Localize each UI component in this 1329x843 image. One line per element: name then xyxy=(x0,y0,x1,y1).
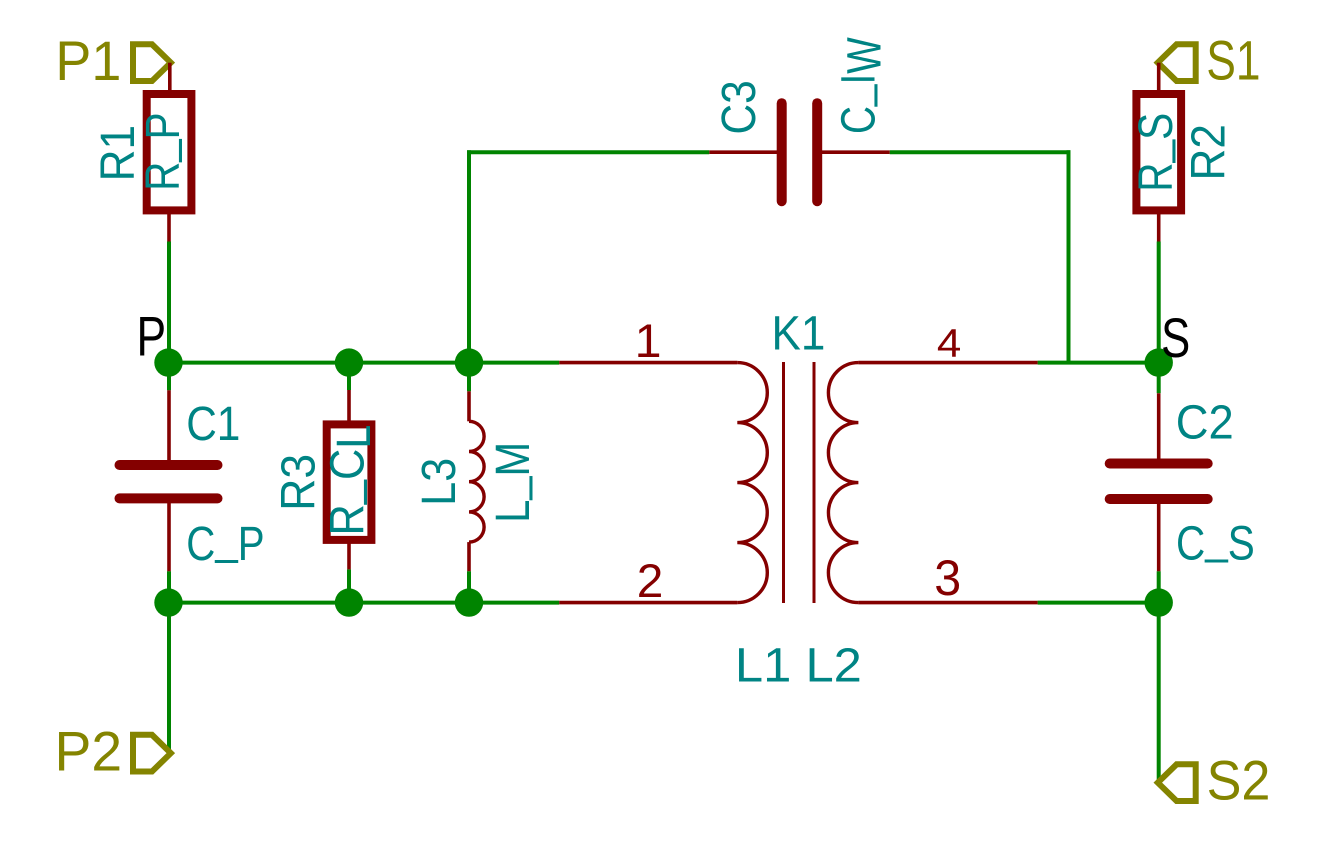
svg-text:L1 L2: L1 L2 xyxy=(735,639,862,692)
svg-text:P2: P2 xyxy=(55,720,123,782)
capacitor C3 reference text xyxy=(713,80,766,134)
transformer K1 pin 2 wire xyxy=(559,601,737,605)
junction node A at L3/C3 branch xyxy=(455,348,483,376)
junction bottom-right node xyxy=(1145,588,1173,616)
resistor R1 top pin from port P1 xyxy=(168,63,172,94)
port P1 global label shape xyxy=(133,44,171,81)
wire: drop from bottom-left node to port P2 xyxy=(167,603,171,752)
transformer K1 core line right xyxy=(813,362,816,603)
capacitor C1 top plate xyxy=(120,460,218,470)
junction node P xyxy=(154,348,182,376)
svg-text:C3: C3 xyxy=(713,80,766,134)
port S2 name text xyxy=(1207,750,1271,812)
capacitor C1 bottom plate xyxy=(120,493,218,503)
resistor R3 top pin xyxy=(347,390,351,424)
svg-text:R_S: R_S xyxy=(1124,113,1183,192)
resistor R3 bottom pin xyxy=(347,540,351,570)
capacitor C3 value text C_IW xyxy=(826,37,891,134)
pin number 4 xyxy=(937,321,961,365)
svg-text:3: 3 xyxy=(934,550,961,606)
wire: from R2 bottom pin to node S xyxy=(1157,242,1161,363)
junction node S xyxy=(1145,348,1173,376)
svg-text:1: 1 xyxy=(635,314,662,367)
wire: R3 bottom pin to bottom rail xyxy=(347,569,351,602)
svg-text:4: 4 xyxy=(937,321,961,365)
transformer K1 primary winding L1 xyxy=(737,363,767,603)
svg-text:R2: R2 xyxy=(1182,124,1235,180)
svg-text:C_P: C_P xyxy=(186,512,264,571)
capacitor C1 reference text xyxy=(186,398,240,451)
capacitor C2 reference text xyxy=(1176,397,1234,450)
wire: from transformer pin 3 to bottom-right node xyxy=(1038,601,1159,605)
net label S xyxy=(1161,307,1190,369)
wire: node S stub to C2 top pin xyxy=(1157,363,1161,394)
wire: L3 bottom pin to bottom rail xyxy=(467,571,471,602)
inductor L3 value text L_M xyxy=(481,442,540,523)
port S2 global label shape xyxy=(1158,764,1196,801)
capacitor C1 top pin xyxy=(167,390,171,465)
inductor L3 top pin xyxy=(467,391,471,421)
svg-text:S1: S1 xyxy=(1206,29,1260,91)
svg-text:S: S xyxy=(1161,307,1190,369)
wire: top rail stub to R3 top pin xyxy=(347,363,351,390)
capacitor C3 left pin xyxy=(709,150,781,154)
port P1 name text xyxy=(55,30,121,92)
transformer K1 secondary winding L2 xyxy=(828,363,858,603)
inductor L3 reference text xyxy=(413,458,466,506)
transformer winding names L1 L2 text xyxy=(735,639,862,692)
wire: C3 right vertical drop to node S rail xyxy=(1067,150,1071,362)
pin number 3 xyxy=(934,550,961,606)
resistor R2 reference text xyxy=(1182,124,1235,180)
svg-text:C1: C1 xyxy=(186,398,240,451)
resistor R1 reference text xyxy=(92,125,145,181)
transformer K1 pin 4 wire xyxy=(858,361,1037,365)
resistor R2 top pin from port S1 xyxy=(1157,63,1161,94)
svg-text:L3: L3 xyxy=(413,458,466,506)
wire: bottom rail from bottom-left node towards transformer pin 2 xyxy=(169,601,559,605)
wire: C3 right horizontal xyxy=(890,150,1071,154)
capacitor C3 right pin xyxy=(817,150,890,154)
transformer K1 pin 3 wire xyxy=(858,601,1037,605)
transformer K1 core line left xyxy=(782,362,785,603)
port S1 global label shape xyxy=(1158,44,1196,81)
wire: C2 bottom pin to bottom-right node xyxy=(1157,571,1161,602)
port P2 global label shape xyxy=(133,735,171,772)
svg-text:K1: K1 xyxy=(772,307,826,360)
resistor R2 value text R_S xyxy=(1124,113,1183,192)
svg-text:P1: P1 xyxy=(55,30,121,92)
svg-text:P: P xyxy=(137,306,167,368)
transformer K1 pin 1 wire xyxy=(559,361,737,365)
resistor R1 value text R_P xyxy=(131,113,190,191)
wire: C1 bottom pin to bottom-left node xyxy=(167,571,171,602)
resistor R1 bottom pin xyxy=(167,210,171,241)
capacitor C3 left plate xyxy=(777,103,787,201)
resistor R2 body xyxy=(1136,94,1181,210)
pin number 1 xyxy=(635,314,662,367)
resistor R1 body xyxy=(147,94,192,210)
resistor R2 bottom pin xyxy=(1157,210,1161,241)
junction bottom rail at L3 xyxy=(455,588,483,616)
transformer K1 reference text xyxy=(772,307,826,360)
wire: top rail stub to L3 top pin xyxy=(467,363,471,392)
junction bottom-left node xyxy=(154,588,182,616)
pin number 2 xyxy=(637,554,664,607)
svg-text:S2: S2 xyxy=(1207,750,1271,812)
capacitor C2 bottom pin xyxy=(1157,499,1161,571)
wire: top rail from node P towards transformer pin 1 xyxy=(169,361,559,365)
wire: C3 left horizontal xyxy=(467,150,709,154)
port P2 name text xyxy=(55,720,123,782)
wire: from transformer pin 4 to node S xyxy=(1038,361,1159,365)
capacitor C2 bottom plate xyxy=(1110,494,1208,504)
resistor R3 value text R_CL xyxy=(316,425,381,536)
svg-text:L_M: L_M xyxy=(481,442,540,523)
inductor L3 bottom pin xyxy=(467,542,471,571)
capacitor C3 right plate xyxy=(812,103,822,201)
wire: node P stub to C1 top pin xyxy=(167,363,171,391)
resistor R3 body xyxy=(327,424,372,540)
junction bottom rail at R3 xyxy=(335,588,363,616)
capacitor C1 value text C_P xyxy=(186,512,264,571)
junction top rail at R3 xyxy=(335,348,363,376)
inductor L3 winding arcs xyxy=(469,421,484,542)
svg-text:C_S: C_S xyxy=(1176,511,1255,570)
svg-text:C2: C2 xyxy=(1176,397,1234,450)
svg-text:2: 2 xyxy=(637,554,664,607)
wire: from R1 bottom pin to node P xyxy=(167,242,171,363)
capacitor C2 value text C_S xyxy=(1176,511,1255,570)
port S1 name text xyxy=(1206,29,1260,91)
svg-text:R_P: R_P xyxy=(131,113,190,191)
wire: C3 left vertical drop to node A xyxy=(467,150,471,362)
capacitor C2 top plate xyxy=(1110,459,1208,469)
capacitor C1 bottom pin xyxy=(167,498,171,571)
resistor R3 reference text xyxy=(272,454,325,511)
capacitor C2 top pin xyxy=(1157,393,1161,463)
net label P xyxy=(137,306,167,368)
wire: drop from bottom-right node to port S2 xyxy=(1157,603,1161,781)
